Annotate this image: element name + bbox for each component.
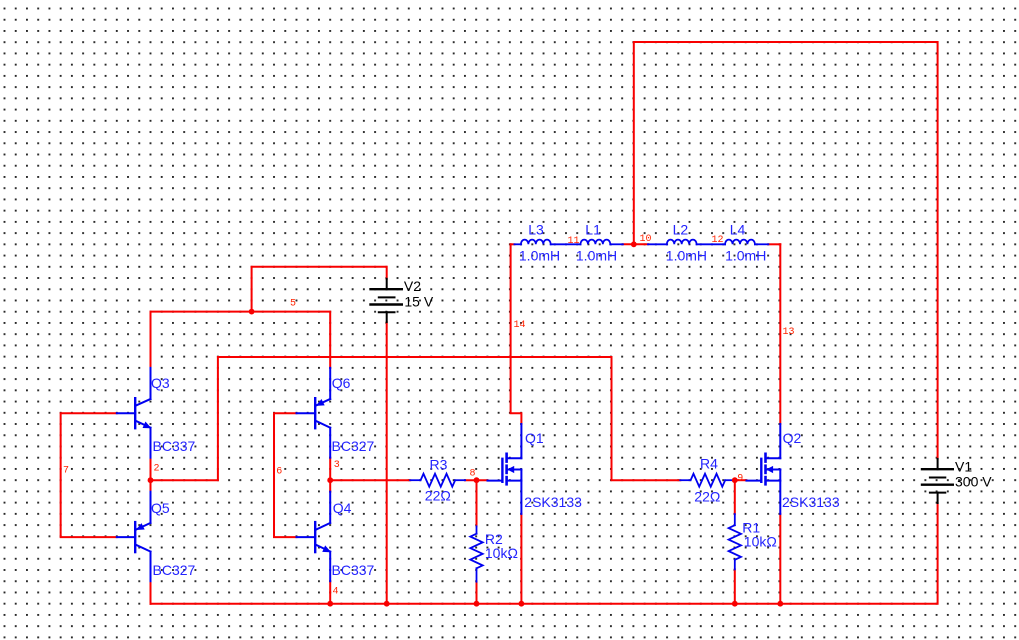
svg-text:12: 12	[712, 235, 724, 246]
svg-text:V2: V2	[404, 278, 421, 294]
svg-text:Q5: Q5	[151, 500, 170, 516]
junction node 2	[148, 477, 154, 483]
junction node 3	[327, 477, 333, 483]
wire V2 plus tap	[252, 267, 387, 312]
svg-text:L4: L4	[730, 221, 746, 237]
svg-text:5: 5	[290, 299, 296, 310]
transistor Q5	[117, 492, 151, 582]
wire node 8	[465, 479, 487, 481]
resistor R3	[410, 474, 465, 487]
wire Q5 collector to rail	[150, 581, 152, 604]
battery V1	[922, 459, 953, 503]
svg-text:10kΩ: 10kΩ	[485, 545, 518, 561]
svg-text:BC327: BC327	[153, 562, 196, 578]
wire Q2 source to rail	[779, 514, 781, 604]
junction rail V2	[384, 601, 390, 607]
wire node 3 vertical	[329, 458, 331, 492]
wire node 9	[735, 479, 747, 481]
junction rail Q1	[519, 601, 525, 607]
svg-text:7: 7	[63, 465, 69, 476]
svg-text:L2: L2	[673, 221, 689, 237]
junction rail Q4	[327, 601, 333, 607]
wire node 9 to R1	[734, 480, 736, 514]
svg-text:L3: L3	[528, 221, 544, 237]
svg-text:10kΩ: 10kΩ	[744, 534, 777, 550]
transistor Q4	[297, 492, 331, 582]
resistor R2	[470, 526, 482, 581]
wire node 5	[151, 312, 331, 368]
svg-text:300 V: 300 V	[955, 474, 992, 490]
junction rail Q2	[777, 601, 783, 607]
svg-text:22Ω: 22Ω	[694, 488, 720, 504]
wire inductor row left	[511, 243, 515, 245]
wire Q2 drain feed	[779, 244, 781, 424]
svg-text:BC327: BC327	[332, 438, 375, 454]
svg-text:1.0mH: 1.0mH	[519, 248, 560, 264]
wire Q4 emitter to rail	[329, 581, 331, 604]
wire node 8 to R2	[476, 480, 478, 526]
wire node 6	[274, 413, 297, 537]
svg-text:V1: V1	[955, 458, 972, 474]
svg-text:13: 13	[783, 327, 795, 338]
inductor L4	[725, 240, 768, 245]
wire inductor row node 10	[623, 243, 648, 245]
svg-text:10: 10	[640, 234, 652, 245]
junction node 9	[732, 477, 738, 483]
svg-text:6: 6	[276, 467, 282, 478]
junction node 5	[249, 309, 255, 315]
resistor R1	[729, 514, 741, 569]
svg-text:22Ω: 22Ω	[425, 488, 451, 504]
svg-text:2SK3133: 2SK3133	[782, 494, 840, 510]
svg-text:L1: L1	[585, 221, 601, 237]
transistor Q6	[297, 368, 331, 458]
mosfet Q1	[488, 424, 522, 514]
junction rail R2	[474, 601, 480, 607]
wire Q1 source to rail	[520, 514, 522, 604]
junction node 10	[631, 241, 637, 247]
inductor L2	[648, 240, 725, 245]
svg-text:11: 11	[568, 236, 580, 247]
svg-text:R4: R4	[700, 455, 718, 471]
svg-text:Q1: Q1	[525, 430, 544, 446]
svg-text:1.0mH: 1.0mH	[576, 248, 617, 264]
svg-text:3: 3	[334, 460, 340, 471]
svg-text:Q4: Q4	[333, 500, 352, 516]
svg-text:8: 8	[470, 469, 476, 480]
inductor L3	[514, 240, 580, 245]
junction node 8	[474, 477, 480, 483]
svg-text:Q6: Q6	[332, 375, 351, 391]
wire V2 minus to rail	[386, 322, 388, 604]
transistor Q3	[117, 368, 151, 458]
battery V2	[371, 279, 402, 322]
wire R2 to rail	[476, 582, 478, 604]
wire node 3 to R3	[330, 479, 410, 481]
wire node 2 vertical	[150, 458, 152, 492]
svg-text:2: 2	[154, 464, 160, 475]
wire top loop node 10 to V1 top	[634, 42, 938, 459]
svg-text:R3: R3	[430, 456, 448, 472]
svg-text:1.0mH: 1.0mH	[725, 248, 766, 264]
svg-text:BC337: BC337	[332, 562, 375, 578]
wire Q1 drain feed	[511, 244, 522, 424]
svg-text:9: 9	[737, 474, 743, 485]
inductor L1	[581, 240, 623, 245]
mosfet Q2	[747, 424, 781, 514]
wire node 7	[61, 413, 117, 537]
svg-text:Q2: Q2	[783, 430, 802, 446]
wire V1 bottom to ground rail	[151, 503, 938, 604]
svg-text:4: 4	[333, 587, 339, 598]
junction rail R1	[732, 601, 738, 607]
wire node 2 to R4	[151, 357, 681, 480]
wire R1 to rail	[734, 569, 736, 603]
svg-text:Q3: Q3	[151, 375, 170, 391]
svg-text:1.0mH: 1.0mH	[666, 248, 707, 264]
svg-text:BC337: BC337	[153, 438, 196, 454]
svg-text:2SK3133: 2SK3133	[524, 494, 582, 510]
resistor R4	[680, 474, 735, 487]
wire inductor row right	[768, 243, 780, 245]
svg-text:15 V: 15 V	[404, 293, 433, 309]
svg-text:14: 14	[514, 320, 526, 331]
